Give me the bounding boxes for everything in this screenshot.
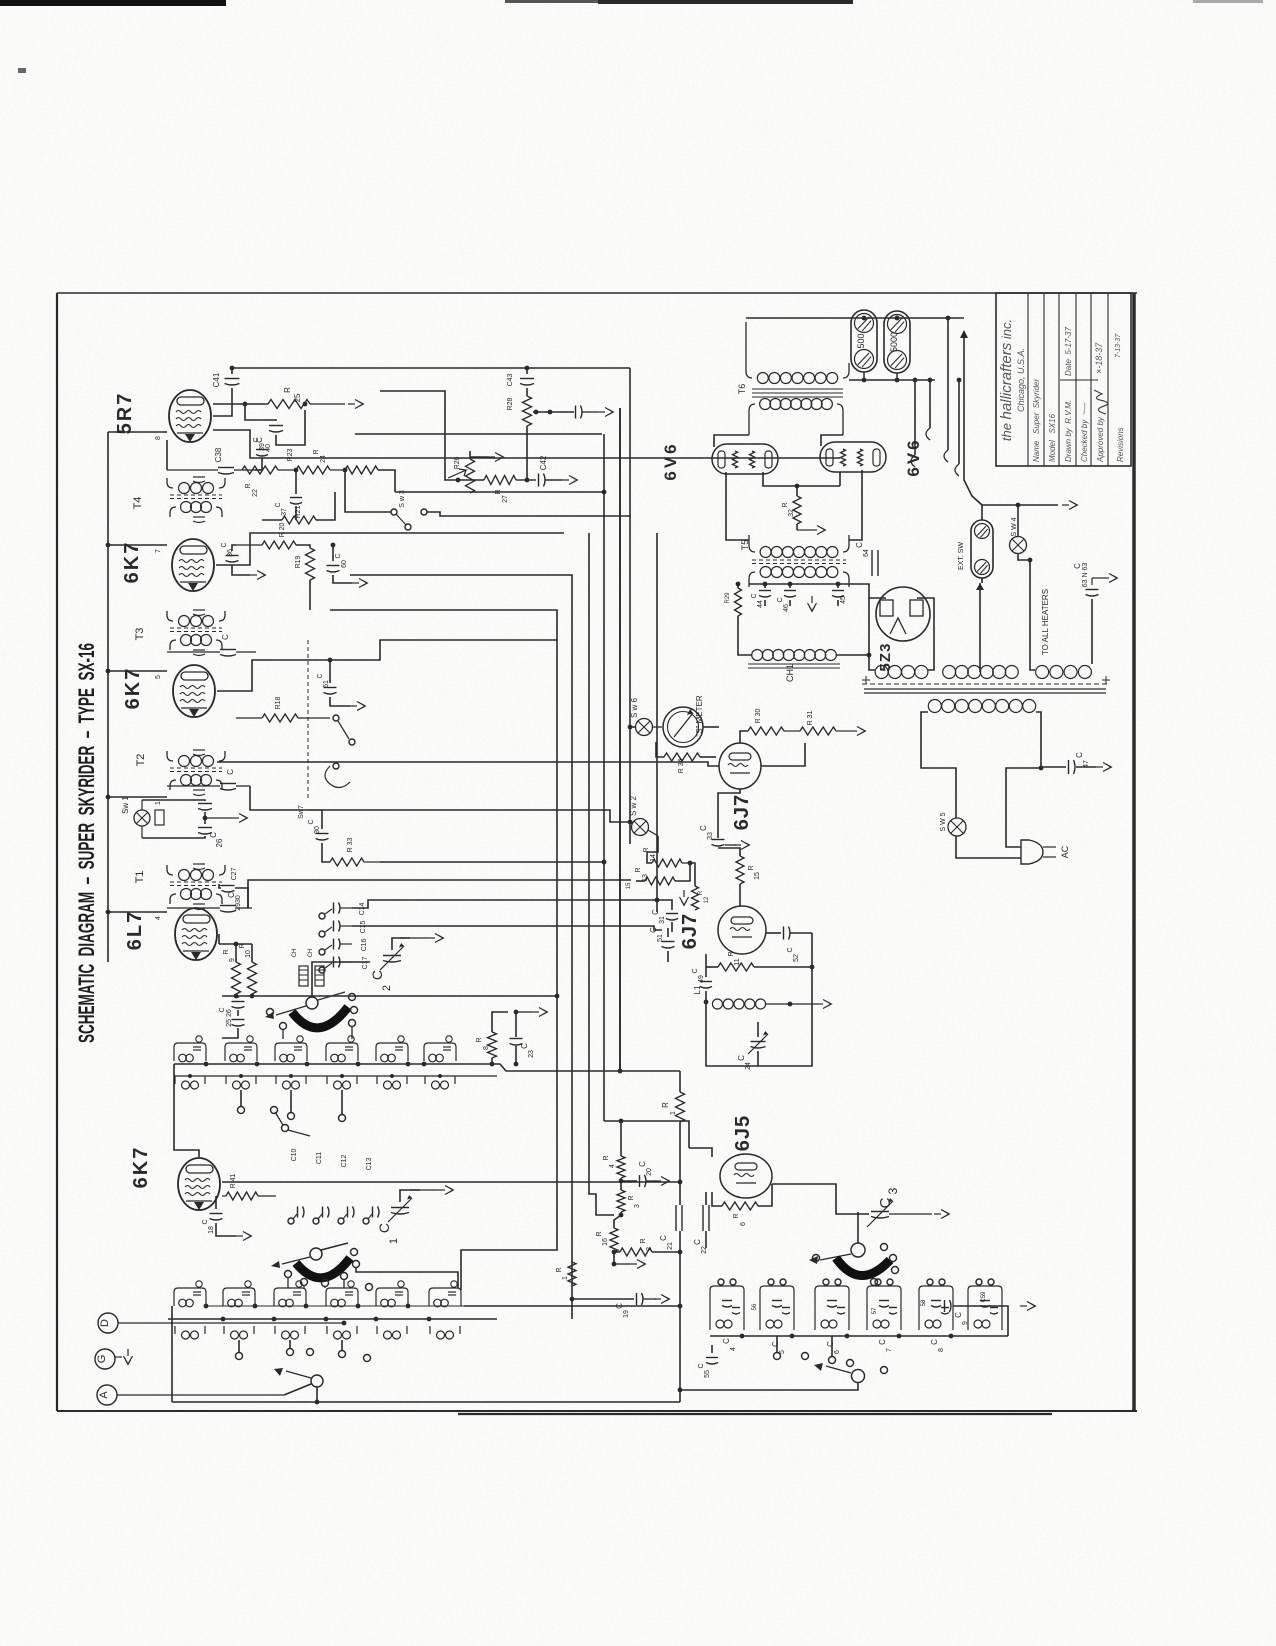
IF transformer T2: [135, 750, 225, 796]
osc coil unit C1: [710, 1279, 744, 1330]
resistor R15: [718, 848, 761, 906]
svg-text:R: R: [245, 483, 252, 488]
bus wire 3: [589, 533, 614, 1215]
S meter: [663, 695, 704, 747]
svg-text:C: C: [219, 1007, 226, 1012]
wire osc couplings: [678, 1145, 683, 1402]
capacitor C34: [167, 769, 250, 790]
bank B bus wire: [168, 1317, 497, 1322]
band switch arc B: [296, 1258, 350, 1278]
lamp SW4 and EXT SW: [958, 517, 1027, 578]
svg-text:Checked by ~—: Checked by ~—: [1080, 402, 1089, 462]
svg-text:C15: C15: [360, 920, 367, 933]
bus wire 1: [330, 610, 557, 1290]
svg-text:12: 12: [704, 896, 710, 903]
IF transformer T3: [134, 610, 225, 656]
capacitor C60: [327, 543, 368, 588]
resistor R31: [800, 711, 866, 736]
capacitor C19: [572, 1293, 670, 1318]
band switch rotor B: [271, 1243, 348, 1268]
svg-text:C41: C41: [212, 372, 221, 387]
RF coil unit A2 secondary: [226, 1076, 256, 1089]
capacitor C47: [1041, 752, 1112, 774]
wire heater junction: [0, 0, 1, 1]
svg-text:6K7: 6K7: [121, 541, 143, 584]
crystal lamp SW1: [121, 796, 164, 838]
capacitor C33: [699, 789, 750, 850]
T7 heater leads: [1030, 560, 1035, 670]
antenna coil unit B6 secondary: [430, 1326, 460, 1339]
antenna coil unit B4: [326, 1281, 358, 1307]
wire y940: [0, 0, 1, 1]
svg-text:8: 8: [155, 436, 162, 440]
svg-text:44: 44: [757, 600, 764, 608]
svg-text:6K7: 6K7: [130, 1146, 152, 1189]
svg-text:T2: T2: [135, 754, 147, 767]
ground C63: [1092, 574, 1118, 583]
svg-text:7: 7: [886, 1348, 893, 1352]
tube 6J7 (meter): [719, 743, 761, 830]
svg-text:R: R: [603, 1155, 610, 1160]
T7 HV leads: [976, 583, 984, 672]
chokes: [292, 949, 324, 986]
svg-text:16: 16: [602, 1238, 609, 1246]
svg-text:8: 8: [483, 1046, 490, 1050]
svg-text:Approved by: Approved by: [1096, 416, 1105, 463]
caps C10-C13: [288, 1148, 379, 1224]
svg-text:9: 9: [229, 958, 236, 962]
tube 6K7 (2nd IF): [121, 539, 214, 591]
svg-text:the hallicrafters inc.: the hallicrafters inc.: [998, 319, 1015, 441]
svg-text:C: C: [878, 1339, 887, 1345]
svg-text:S w 2: S w 2: [629, 795, 638, 816]
svg-text:R: R: [733, 1213, 740, 1218]
svg-text:R: R: [635, 867, 642, 872]
svg-text:R19: R19: [295, 555, 302, 568]
svg-text:3: 3: [886, 1187, 900, 1194]
svg-text:C: C: [221, 542, 228, 547]
T7 5Z3 filament leads: [869, 598, 934, 670]
wire 6K7a top: [0, 0, 1, 1]
antenna coil unit B2: [223, 1281, 255, 1307]
RF coil unit A3: [275, 1036, 307, 1062]
switch SW7 contacts: [298, 640, 355, 819]
wire bank B left vertical: [171, 1306, 173, 1402]
svg-text:23: 23: [528, 1050, 535, 1058]
svg-text:C: C: [930, 1339, 939, 1345]
capacitor C49: [692, 954, 712, 1002]
svg-text:Drawn by R.V.M.: Drawn by R.V.M.: [1064, 400, 1073, 462]
svg-text:C17: C17: [362, 956, 369, 969]
caps C14-C17 with terminals: [319, 902, 369, 973]
svg-text:39: 39: [259, 443, 266, 451]
lamp SW5: [940, 812, 966, 836]
svg-text:57: 57: [872, 1307, 878, 1314]
svg-text:22: 22: [701, 1246, 708, 1254]
svg-text:30: 30: [314, 826, 321, 834]
svg-text:C: C: [376, 1223, 392, 1233]
svg-text:R: R: [556, 1267, 563, 1272]
main tuning cap C3: [867, 1187, 950, 1227]
tube 5Z3: [876, 587, 930, 671]
capacitor C61: [317, 658, 366, 711]
RF coil unit A1 secondary: [175, 1076, 205, 1089]
RF coil unit A4: [326, 1036, 358, 1062]
svg-text:2: 2: [646, 1247, 653, 1251]
capacitor C36: [221, 542, 266, 579]
svg-text:C: C: [1075, 752, 1084, 758]
power transformer T7 secondary: [862, 666, 1110, 694]
ground EXT SW: [1062, 501, 1078, 510]
wire stage couplings right: [255, 469, 262, 471]
wire y880: [248, 880, 631, 908]
caps C44 C46 C45: [751, 591, 847, 612]
svg-text:C: C: [692, 968, 699, 973]
svg-text:6V6: 6V6: [904, 437, 923, 476]
EXT SW wires: [982, 503, 1058, 583]
crystal filter caps C28 C26: [142, 800, 248, 847]
RF coil unit A6 secondary: [425, 1076, 455, 1089]
svg-text:55: 55: [704, 1370, 711, 1378]
svg-text:R18: R18: [275, 696, 282, 709]
tube 6K7 (RF amp): [130, 1146, 220, 1210]
resistor R47: [222, 1174, 276, 1200]
svg-text:C13: C13: [366, 1157, 373, 1170]
electrolytic 500: [851, 310, 877, 372]
svg-text:C: C: [826, 1341, 835, 1347]
svg-text:4: 4: [155, 916, 162, 920]
capacitor C42: [527, 455, 578, 486]
wire y436: [0, 0, 1, 1]
svg-text:C: C: [877, 1197, 894, 1208]
svg-text:51: 51: [657, 934, 664, 942]
ground caps: [0, 0, 1, 1]
tube 6V6 lower: [820, 437, 923, 476]
IF transformer T4: [132, 477, 225, 523]
wires 6V6 couplings: [0, 0, 1, 1]
svg-text:C59: C59: [981, 1291, 987, 1303]
svg-text:R: R: [596, 1231, 603, 1236]
resistor R2: [614, 1238, 682, 1256]
bus wire 4: [603, 434, 605, 1121]
resistor R11: [706, 951, 812, 971]
wire T2 to SW2: [308, 810, 630, 822]
svg-text:C11: C11: [316, 1152, 323, 1164]
lamp SW6: [628, 697, 662, 735]
resistor R29: [725, 584, 742, 616]
bus wire 2: [350, 575, 572, 1319]
power transformer T7 primary: [928, 700, 1035, 713]
wire C14 row right 1: [352, 898, 659, 908]
antenna coil unit B3: [274, 1281, 306, 1307]
svg-text:C: C: [202, 1219, 209, 1224]
svg-text:C: C: [693, 1239, 702, 1245]
svg-text:C: C: [638, 1161, 647, 1167]
wire 6V6 cathodes: [763, 472, 840, 488]
svg-text:A: A: [98, 1391, 110, 1399]
svg-text:C: C: [369, 970, 385, 980]
svg-text:C: C: [520, 1043, 529, 1049]
svg-text:C: C: [1073, 563, 1082, 569]
resistor R27: [456, 476, 527, 503]
svg-text:46: 46: [783, 604, 790, 612]
RF coil unit A5 secondary: [377, 1076, 407, 1089]
resistor R4: [603, 1119, 625, 1184]
wire long y622: [0, 0, 1, 1]
svg-text:C: C: [651, 909, 660, 915]
svg-text:C42: C42: [539, 455, 548, 470]
T7 primary circuit: [921, 712, 1043, 858]
svg-text:TO ALL HEATERS: TO ALL HEATERS: [1041, 589, 1050, 655]
resistor R1: [661, 1071, 685, 1145]
pin numbers: [155, 436, 162, 920]
svg-text:EXT. SW: EXT. SW: [958, 542, 965, 570]
caps C25 C26: [219, 996, 252, 1038]
svg-text:1: 1: [670, 1111, 677, 1115]
wire T2 right: [250, 786, 308, 810]
svg-text:CH1: CH1: [785, 664, 795, 682]
IF transformer T1: [134, 864, 225, 910]
switch contacts B: [285, 1249, 459, 1291]
svg-text:5: 5: [155, 675, 162, 679]
svg-text:58: 58: [921, 1299, 927, 1306]
antenna coil unit B1 secondary: [175, 1326, 205, 1339]
svg-text:20: 20: [646, 1168, 653, 1176]
bus wire 6: [629, 368, 631, 844]
wire bank C bottom: [0, 0, 1, 1]
bus wire 5 (heavy B+): [618, 408, 623, 1073]
speaker jack wires: [911, 378, 961, 476]
capacitor C63: [1073, 563, 1099, 664]
resistor R20: [236, 523, 296, 549]
capacitor C38: [167, 440, 255, 474]
svg-text:C: C: [751, 593, 758, 598]
svg-text:CH: CH: [308, 949, 314, 958]
svg-text:6K7: 6K7: [122, 667, 144, 710]
bus wire 7: [656, 533, 658, 912]
svg-text:6V6: 6V6: [661, 441, 680, 480]
resistor R28: [507, 396, 532, 482]
svg-text:C: C: [335, 553, 342, 558]
svg-text:S w 6: S w 6: [630, 697, 639, 718]
wire 5R7 grid top: [0, 0, 1, 1]
ground R13: [680, 890, 711, 906]
cap C18: [202, 1196, 252, 1241]
svg-text:61: 61: [323, 680, 330, 688]
electrolytic 5000: [884, 311, 910, 373]
osc box wires: [0, 0, 1, 1]
antenna coil unit B2 secondary: [224, 1326, 254, 1339]
capacitor C51: [649, 927, 675, 962]
svg-text:6J5: 6J5: [732, 1115, 754, 1151]
AC plug: [1021, 840, 1070, 864]
capacitor C37 R21: [262, 470, 335, 524]
svg-text:SCHEMATIC DIAGRAM – SUPER: SCHEMATIC DIAGRAM – SUPER SKYRIDER – TYP…: [74, 643, 99, 1043]
wire rotorA to C2: [312, 962, 370, 997]
svg-text:R: R: [661, 1102, 670, 1108]
osc coil unit C3: [815, 1279, 849, 1330]
svg-text:Name Super Skyrider: Name Super Skyrider: [1032, 379, 1041, 462]
svg-text:R: R: [748, 865, 755, 870]
resistor R24: [313, 449, 395, 492]
wire bus4 to 6J5: [604, 1121, 689, 1148]
svg-text:14: 14: [650, 854, 657, 862]
BFO box wires: [0, 0, 1, 1]
terminal D: [98, 1313, 346, 1333]
antenna coil unit B5: [376, 1281, 408, 1307]
svg-text:10: 10: [245, 950, 252, 958]
svg-text:C: C: [308, 819, 315, 824]
band switch rotor A: [265, 992, 345, 1019]
svg-text:24: 24: [320, 455, 327, 463]
wire 5R7 plate right: [213, 430, 840, 458]
wire AVC bus left: [106, 432, 167, 962]
wire bank B right: [464, 1305, 680, 1307]
svg-text:Revisions: Revisions: [1116, 427, 1125, 462]
wire 6V6 plates to T6: [714, 435, 843, 447]
wire 6J5 to C3: [772, 1184, 869, 1214]
svg-text:31: 31: [659, 916, 666, 924]
svg-text:52: 52: [793, 954, 800, 962]
svg-text:8: 8: [938, 1348, 945, 1352]
capacitor C9 and coil: [945, 1300, 1009, 1336]
svg-text:C: C: [253, 437, 260, 442]
terminal G: [95, 1349, 133, 1369]
svg-text:R: R: [640, 1238, 647, 1243]
svg-text:15: 15: [754, 872, 761, 880]
resistor R23: [287, 448, 345, 474]
antenna coil unit B6: [429, 1281, 461, 1307]
svg-text:5000: 5000: [889, 332, 899, 352]
svg-text:C: C: [777, 597, 784, 602]
capacitor C40: [245, 402, 307, 452]
svg-text:D: D: [99, 1319, 111, 1327]
antenna coil unit B3 secondary: [275, 1326, 305, 1339]
tube 6J5: [720, 1115, 772, 1198]
resistor R13: [626, 863, 690, 889]
bank B lower stems: [236, 1340, 371, 1362]
svg-text:R 20: R 20: [279, 523, 286, 538]
svg-text:R 34: R 34: [678, 759, 685, 774]
capacitor C20: [621, 1161, 670, 1187]
capacitor C52: [766, 927, 812, 962]
choke CH1: [738, 616, 871, 682]
resistor R32: [782, 486, 801, 530]
svg-text:R: R: [476, 1037, 483, 1042]
output transformer T6: [737, 322, 849, 435]
svg-text:C27: C27: [231, 867, 238, 880]
ground L1: [790, 1000, 832, 1009]
svg-text:CH: CH: [292, 949, 298, 958]
svg-text:C: C: [787, 947, 794, 952]
svg-text:4: 4: [730, 1347, 737, 1351]
resistor R16: [596, 1215, 621, 1254]
svg-text:60: 60: [341, 560, 348, 568]
antenna coil unit B4 secondary: [327, 1326, 357, 1339]
svg-text:49: 49: [698, 975, 705, 983]
svg-text:Date 5-17-37: Date 5-17-37: [1064, 327, 1073, 376]
svg-text:63 N 63: 63 N 63: [1082, 563, 1089, 588]
ground top right: [0, 0, 1, 1]
svg-text:R: R: [782, 502, 789, 507]
ground R32: [797, 526, 826, 535]
switch SW3: [345, 470, 631, 530]
wire y492: [395, 490, 606, 495]
svg-text:11: 11: [734, 958, 741, 965]
band switch rotor C2: [678, 1363, 865, 1392]
title SCHEMATIC DIAGRAM - SUPER SKYRIDER - TYPE SX-16: [74, 643, 99, 1043]
wire RF plate line: [222, 1180, 682, 1185]
svg-text:R23: R23: [287, 448, 294, 461]
antenna coil unit B5 secondary: [377, 1326, 407, 1339]
svg-text:C38: C38: [214, 447, 223, 462]
osc coil unit C2: [760, 1279, 794, 1330]
capacitor C35: [167, 634, 256, 656]
svg-text:6L7: 6L7: [124, 910, 146, 950]
wire long rail y434: [355, 433, 602, 435]
svg-text:×-18-37: ×-18-37: [1094, 342, 1104, 374]
tube 6L7 (mixer): [124, 908, 217, 960]
svg-text:T3: T3: [134, 628, 146, 641]
svg-text:R29: R29: [725, 592, 731, 604]
svg-text:C: C: [698, 1363, 705, 1368]
svg-text:"S" METER: "S" METER: [695, 695, 704, 736]
wire T5 secondary: [0, 0, 1, 1]
svg-text:40: 40: [265, 444, 272, 452]
svg-text:56: 56: [752, 1303, 758, 1310]
ground right of C1: [410, 1186, 454, 1195]
wire 6J7a down: [0, 0, 1, 1]
svg-text:C12: C12: [341, 1154, 348, 1167]
wire bank B bottom: [172, 1387, 680, 1404]
osc coil unit C6: [968, 1279, 1002, 1330]
wire 5Z3 plate top: [0, 0, 1, 1]
svg-text:4: 4: [609, 1164, 616, 1168]
svg-text:18: 18: [208, 1226, 215, 1234]
switch contacts A: [267, 994, 358, 1040]
resistor R30: [740, 709, 800, 743]
wire 6K7b plate: [217, 640, 557, 691]
capacitor C41: [212, 366, 240, 416]
svg-text:C: C: [221, 634, 230, 640]
capacitor C27 trim: [219, 867, 248, 908]
svg-text:R28: R28: [507, 397, 514, 410]
border frame: [57, 293, 1137, 1414]
terminal A: [97, 1384, 311, 1405]
osc coil unit C5: [919, 1279, 953, 1330]
wire T6 primary leads: [0, 0, 1, 1]
capacitor C23: [510, 1008, 548, 1067]
svg-text:1: 1: [562, 1276, 569, 1280]
svg-text:25 26: 25 26: [226, 1009, 233, 1027]
svg-text:AC: AC: [1060, 845, 1070, 858]
svg-text:500: 500: [856, 333, 866, 348]
wire C14 row to bus: [0, 0, 1, 1]
tube 6K7 (1st IF): [122, 665, 215, 717]
lamp SW2: [628, 795, 658, 836]
svg-text:C: C: [659, 1235, 668, 1241]
svg-text:32: 32: [788, 509, 795, 517]
tube 6J7 (BFO): [679, 906, 766, 954]
svg-text:21: 21: [667, 1242, 674, 1250]
RF coil unit A5: [376, 1036, 408, 1062]
svg-text:C: C: [855, 542, 864, 548]
wire B+ line: [736, 582, 869, 598]
wire top rail: [232, 366, 630, 371]
svg-text:Model SX16: Model SX16: [1048, 413, 1057, 462]
wire R26 feed: [380, 391, 458, 480]
bank A lower stems: [238, 1090, 346, 1136]
